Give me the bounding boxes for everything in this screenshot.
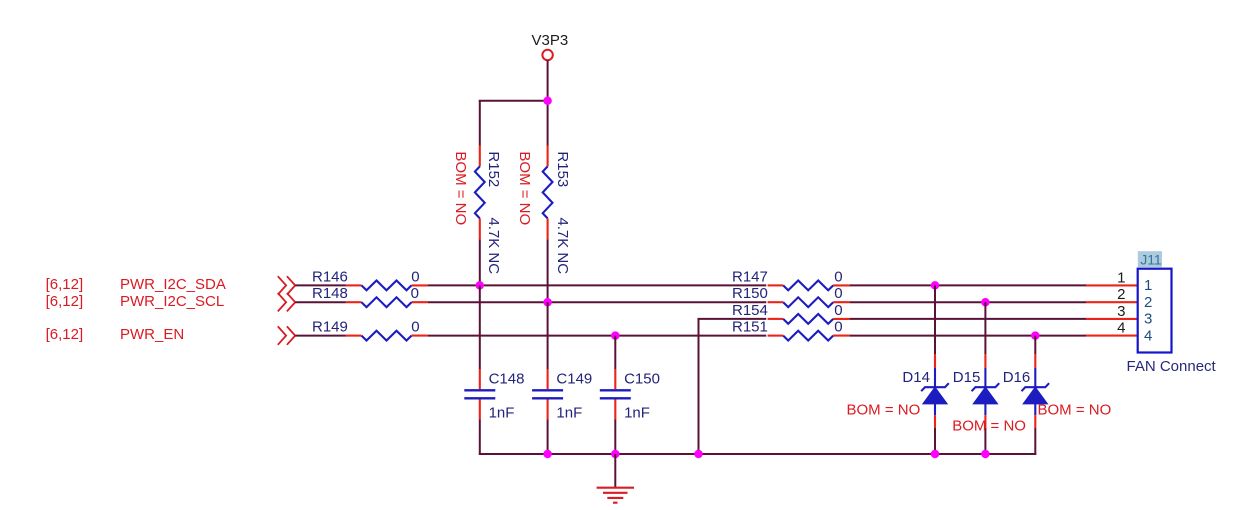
- junction SCL/R153-C149: [543, 298, 552, 307]
- svg-text:R153: R153: [554, 151, 571, 187]
- junction rail/D14: [931, 450, 940, 459]
- connector J11 pin 2 stub: [1086, 301, 1138, 303]
- capacitor C149: [532, 369, 592, 422]
- svg-text:BOM = NO: BOM = NO: [952, 417, 1026, 434]
- svg-text:FAN Connect: FAN Connect: [1127, 358, 1217, 375]
- junction at V3P3 node: [543, 97, 552, 106]
- wire C150 branch lower: [614, 420, 616, 455]
- svg-text:0: 0: [834, 319, 842, 336]
- wire C149 branch lower: [547, 420, 549, 455]
- zener diode D16: [1003, 354, 1049, 428]
- wire EN row segment 1: [295, 335, 346, 337]
- svg-text:PWR_EN: PWR_EN: [120, 326, 184, 343]
- resistor R147: [732, 268, 850, 290]
- svg-text:BOM = NO: BOM = NO: [452, 151, 469, 225]
- reference designator J11: [1138, 251, 1162, 267]
- svg-text:2: 2: [1144, 294, 1152, 311]
- connector J11 pin 3 stub: [1086, 318, 1138, 320]
- svg-text:[6,12]: [6,12]: [46, 276, 84, 293]
- svg-text:1: 1: [1144, 277, 1152, 294]
- svg-text:J11: J11: [1140, 252, 1162, 268]
- connector J11 body: [1138, 269, 1172, 353]
- svg-text:4: 4: [1144, 327, 1152, 344]
- svg-text:R148: R148: [312, 285, 348, 302]
- wire EN row segment 3: [850, 335, 1086, 337]
- svg-text:PWR_I2C_SDA: PWR_I2C_SDA: [120, 276, 226, 293]
- resistor R153: [543, 145, 571, 274]
- resistor R150: [732, 285, 850, 307]
- svg-text:3: 3: [1117, 303, 1125, 320]
- junction SDA/R152-C148: [476, 281, 485, 290]
- svg-text:PWR_I2C_SCL: PWR_I2C_SCL: [120, 293, 224, 310]
- junction EN/D16: [1031, 331, 1040, 340]
- svg-text:0: 0: [834, 268, 842, 285]
- svg-text:C149: C149: [556, 370, 592, 387]
- svg-text:R146: R146: [312, 268, 348, 285]
- wire V3P3 stem: [547, 60, 549, 101]
- svg-text:D15: D15: [953, 369, 981, 386]
- wire GND row segment: [697, 318, 766, 320]
- wire ground rail: [479, 453, 1037, 455]
- junction rail/C150-GND: [611, 450, 620, 459]
- wire EN row segment 2: [428, 335, 766, 337]
- svg-text:R150: R150: [732, 285, 768, 302]
- wire C148 branch upper: [479, 285, 481, 369]
- svg-text:BOM = NO: BOM = NO: [1038, 401, 1112, 418]
- svg-text:4: 4: [1117, 320, 1125, 337]
- svg-text:1nF: 1nF: [556, 405, 582, 422]
- zener diode D15: [953, 354, 999, 428]
- resistor R154: [732, 302, 850, 324]
- junction EN/C150: [611, 331, 620, 340]
- svg-text:1: 1: [1117, 269, 1125, 286]
- wire R153 branch upper: [547, 101, 549, 146]
- svg-text:R147: R147: [732, 268, 768, 285]
- svg-text:D16: D16: [1003, 369, 1031, 386]
- resistor R148: [312, 285, 428, 307]
- wire top horizontal: [479, 100, 548, 102]
- off-page connector chevron: [278, 276, 295, 294]
- power symbol V3P3: [532, 32, 569, 60]
- svg-text:C148: C148: [489, 370, 525, 387]
- junction rail/C149: [543, 450, 552, 459]
- wire SCL row segment 2: [428, 301, 766, 303]
- svg-text:V3P3: V3P3: [532, 32, 569, 49]
- resistor R149: [312, 319, 428, 341]
- wire ground stem: [614, 454, 616, 487]
- svg-text:0: 0: [834, 285, 842, 302]
- svg-text:2: 2: [1117, 286, 1125, 303]
- svg-text:3: 3: [1144, 311, 1152, 328]
- svg-text:0: 0: [411, 268, 419, 285]
- wire C150 branch upper: [614, 336, 616, 369]
- svg-text:R151: R151: [732, 319, 768, 336]
- svg-text:[6,12]: [6,12]: [46, 293, 84, 310]
- wire D15 branch lower: [984, 428, 986, 454]
- off-page connector chevron: [278, 326, 295, 344]
- wire SDA row segment 2: [428, 284, 766, 286]
- svg-text:D14: D14: [902, 369, 930, 386]
- wire C148 branch lower: [479, 420, 481, 455]
- svg-text:0: 0: [411, 319, 419, 336]
- off-page connector chevron: [278, 293, 295, 311]
- capacitor C150: [600, 369, 660, 422]
- svg-text:4.7K NC: 4.7K NC: [485, 217, 502, 274]
- resistor R152: [475, 145, 502, 274]
- wire R153 to SCL row: [547, 239, 549, 302]
- wire GND row elbow down: [698, 319, 700, 454]
- resistor R151: [732, 319, 850, 341]
- wire D16 branch lower: [1034, 428, 1036, 454]
- svg-text:0: 0: [411, 285, 419, 302]
- ground symbol: [597, 488, 634, 503]
- zener diode D14: [902, 354, 948, 428]
- wire C149 branch upper: [547, 302, 549, 369]
- connector J11 pin 4 stub: [1086, 335, 1138, 337]
- wire D16 branch upper: [1034, 336, 1036, 354]
- wire SDA row segment 1: [295, 284, 346, 286]
- svg-text:C150: C150: [624, 370, 660, 387]
- wire D14 branch upper: [934, 285, 936, 354]
- svg-text:BOM = NO: BOM = NO: [516, 151, 533, 225]
- junction SDA/D14: [931, 281, 940, 290]
- svg-text:4.7K NC: 4.7K NC: [554, 217, 571, 274]
- svg-text:R152: R152: [485, 151, 502, 187]
- capacitor C148: [464, 369, 524, 422]
- resistor R146: [312, 268, 428, 290]
- svg-text:1nF: 1nF: [489, 405, 515, 422]
- connector J11 pin 1 stub: [1086, 284, 1138, 286]
- junction rail/D15: [981, 450, 990, 459]
- svg-text:1nF: 1nF: [624, 405, 650, 422]
- junction rail/row3 elbow: [694, 450, 703, 459]
- svg-text:R149: R149: [312, 319, 348, 336]
- svg-text:R154: R154: [732, 302, 768, 319]
- wire GND row segment 2: [850, 318, 1086, 320]
- wire R152 to SDA row: [479, 239, 481, 285]
- wire SCL row segment 1: [295, 301, 346, 303]
- wire D15 branch upper: [984, 302, 986, 354]
- svg-text:[6,12]: [6,12]: [46, 326, 84, 343]
- wire R152 branch upper: [479, 101, 481, 146]
- junction SCL/D15: [981, 298, 990, 307]
- svg-text:BOM = NO: BOM = NO: [847, 401, 921, 418]
- wire SCL row segment 3: [850, 301, 1086, 303]
- svg-text:0: 0: [834, 302, 842, 319]
- wire SDA row segment 3: [850, 284, 1086, 286]
- wire D14 branch lower: [934, 428, 936, 454]
